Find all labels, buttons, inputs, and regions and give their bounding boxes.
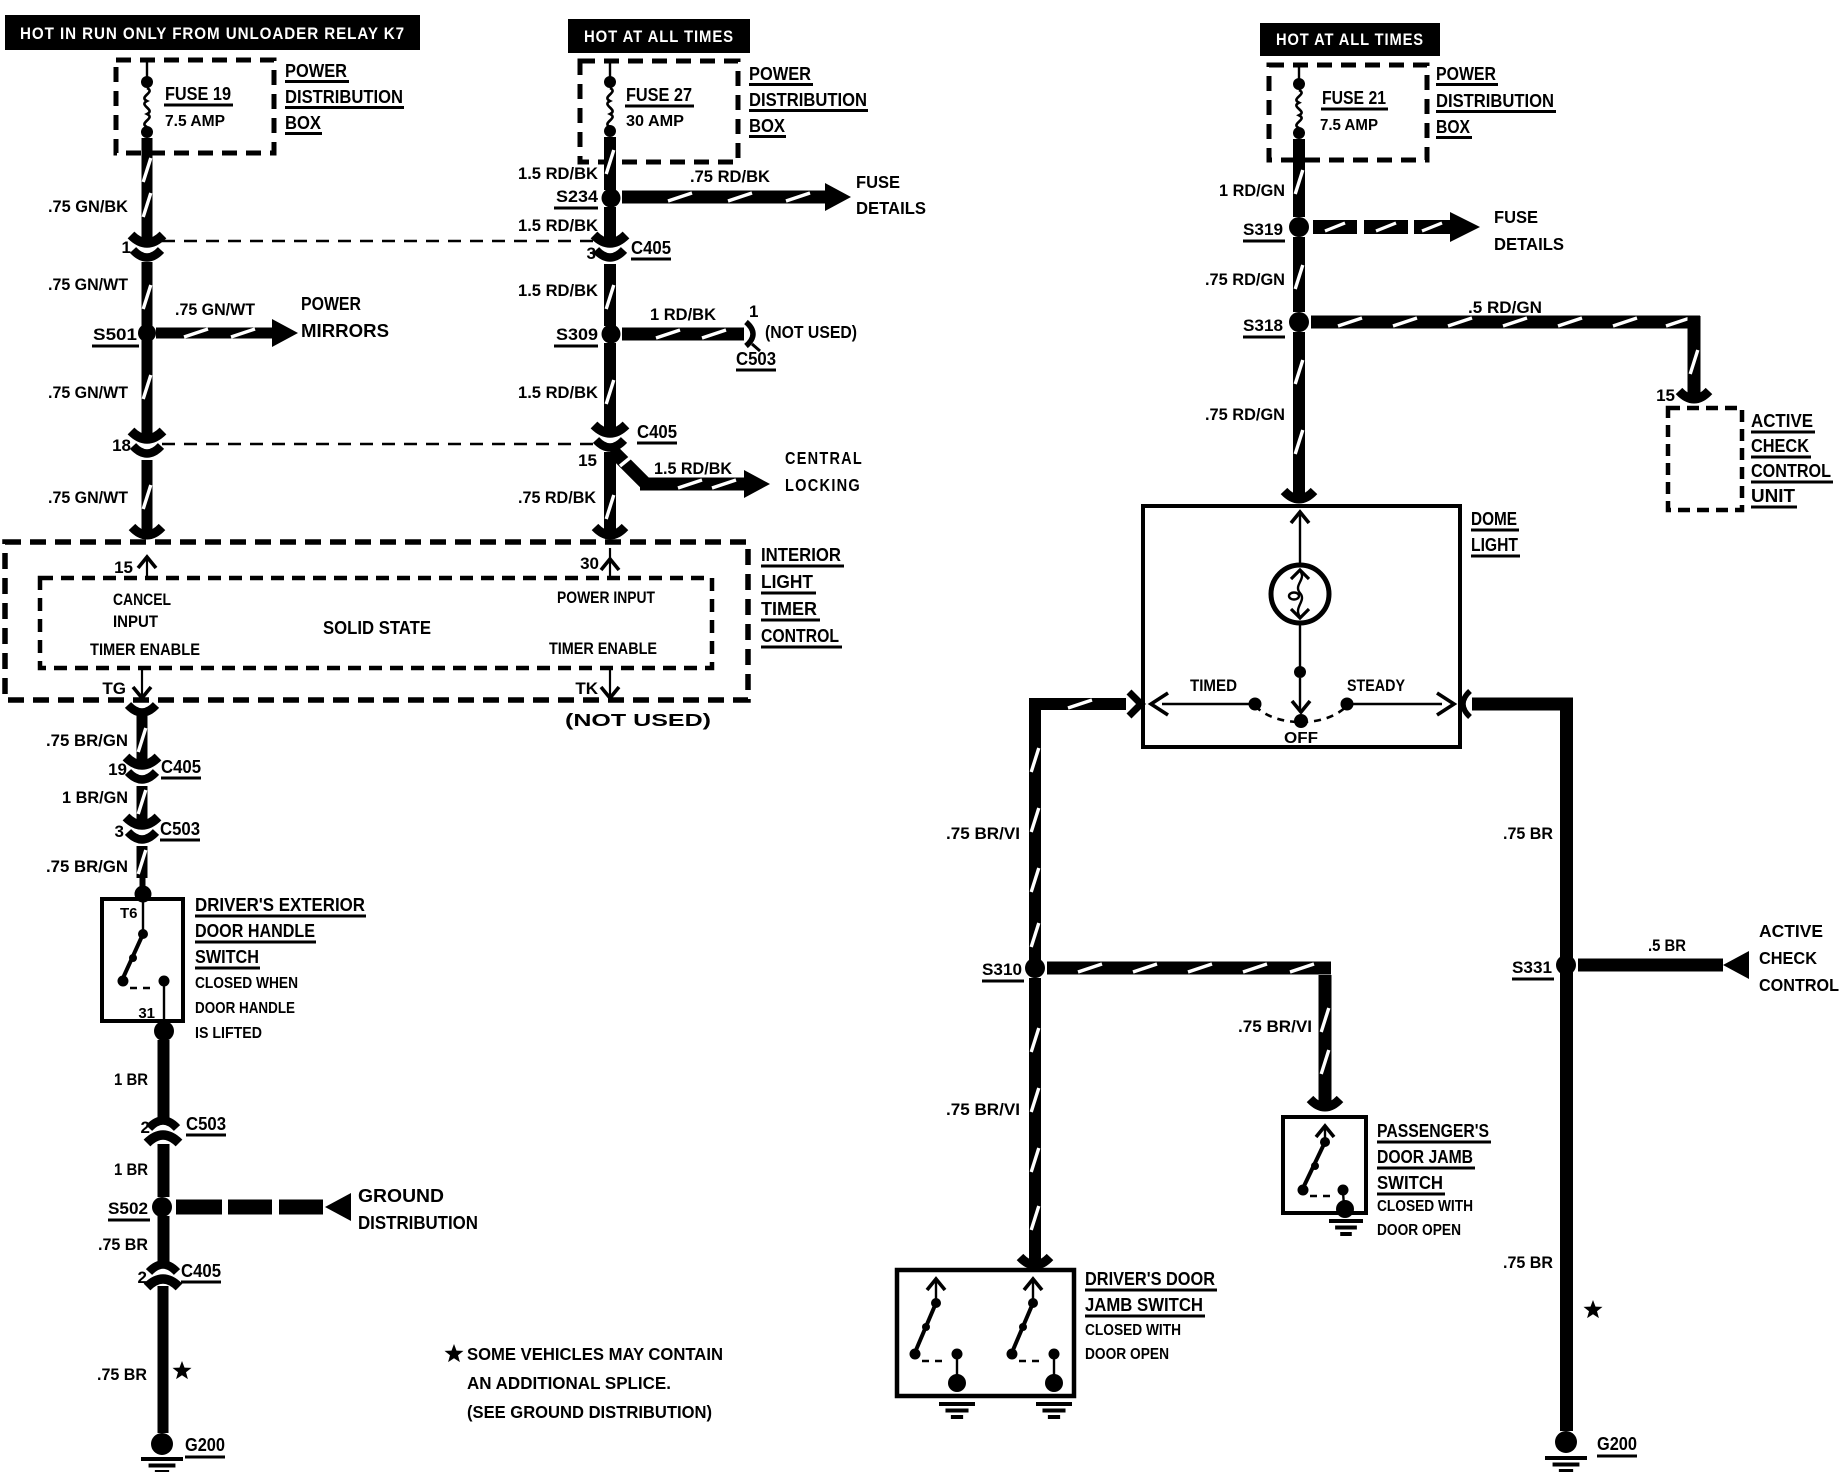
svg-text:FUSE 19: FUSE 19 (165, 84, 231, 104)
svg-text:2: 2 (141, 1118, 150, 1137)
svg-text:30 AMP: 30 AMP (626, 113, 684, 130)
svg-text:FUSE 27: FUSE 27 (626, 85, 692, 105)
svg-text:SWITCH: SWITCH (1377, 1173, 1443, 1193)
svg-text:7.5 AMP: 7.5 AMP (165, 113, 225, 130)
svg-text:(NOT USED): (NOT USED) (765, 322, 857, 342)
svg-text:(NOT USED): (NOT USED) (565, 710, 711, 730)
svg-text:TIMER ENABLE: TIMER ENABLE (549, 640, 657, 658)
svg-text:DETAILS: DETAILS (1494, 234, 1564, 254)
svg-text:.75 GN/BK: .75 GN/BK (48, 197, 129, 216)
svg-text:FUSE 21: FUSE 21 (1322, 88, 1386, 108)
svg-text:.75 GN/WT: .75 GN/WT (48, 383, 129, 402)
svg-text:POWER: POWER (301, 294, 361, 314)
svg-text:1 RD/GN: 1 RD/GN (1219, 181, 1285, 200)
svg-text:1: 1 (749, 302, 758, 321)
svg-text:1 BR: 1 BR (114, 1160, 148, 1179)
svg-text:DOOR HANDLE: DOOR HANDLE (195, 1000, 295, 1017)
svg-text:C405: C405 (161, 757, 201, 777)
svg-text:15: 15 (578, 451, 597, 470)
svg-text:1 BR/GN: 1 BR/GN (62, 788, 128, 807)
svg-text:.75 GN/WT: .75 GN/WT (48, 275, 129, 294)
svg-text:G200: G200 (185, 1435, 225, 1455)
svg-text:ACTIVE: ACTIVE (1759, 921, 1823, 941)
svg-text:CENTRAL: CENTRAL (785, 448, 863, 468)
svg-text:.75 GN/WT: .75 GN/WT (175, 300, 256, 319)
svg-text:CLOSED WHEN: CLOSED WHEN (195, 975, 298, 992)
svg-text:1.5 RD/BK: 1.5 RD/BK (518, 383, 599, 402)
svg-text:POWER: POWER (1436, 64, 1496, 84)
svg-text:OFF: OFF (1284, 730, 1318, 747)
svg-text:.75 BR/GN: .75 BR/GN (46, 857, 128, 876)
svg-text:CONTROL: CONTROL (1759, 975, 1839, 995)
svg-text:C405: C405 (181, 1261, 221, 1281)
svg-text:CHECK: CHECK (1759, 948, 1817, 968)
svg-text:15: 15 (1656, 386, 1675, 405)
svg-text:JAMB SWITCH: JAMB SWITCH (1085, 1295, 1203, 1315)
svg-text:BOX: BOX (749, 116, 785, 136)
svg-text:UNIT: UNIT (1751, 486, 1795, 506)
svg-text:7.5 AMP: 7.5 AMP (1320, 117, 1378, 134)
svg-text:.75 RD/GN: .75 RD/GN (1205, 270, 1285, 289)
svg-text:LIGHT: LIGHT (1471, 535, 1518, 555)
svg-text:FUSE: FUSE (1494, 207, 1538, 227)
svg-text:.75 BR/GN: .75 BR/GN (46, 731, 128, 750)
svg-text:1.5 RD/BK: 1.5 RD/BK (518, 216, 599, 235)
svg-text:SOME VEHICLES MAY CONTAIN: SOME VEHICLES MAY CONTAIN (467, 1344, 723, 1364)
svg-text:DRIVER'S EXTERIOR: DRIVER'S EXTERIOR (195, 895, 365, 915)
svg-text:.75 RD/BK: .75 RD/BK (518, 488, 597, 507)
svg-text:BOX: BOX (285, 113, 321, 133)
svg-text:1 BR: 1 BR (114, 1070, 148, 1089)
svg-text:TK: TK (575, 679, 598, 698)
svg-text:HOT AT ALL TIMES: HOT AT ALL TIMES (584, 28, 734, 46)
svg-text:C405: C405 (637, 422, 677, 442)
svg-text:DISTRIBUTION: DISTRIBUTION (285, 87, 403, 107)
svg-text:.75 RD/GN: .75 RD/GN (1205, 405, 1285, 424)
svg-text:STEADY: STEADY (1347, 677, 1405, 695)
svg-text:BOX: BOX (1436, 117, 1470, 137)
svg-text:CHECK: CHECK (1751, 436, 1809, 456)
svg-text:1: 1 (122, 238, 131, 257)
svg-text:S502: S502 (108, 1199, 148, 1218)
svg-text:TIMED: TIMED (1190, 677, 1237, 695)
svg-text:.5 BR: .5 BR (1648, 936, 1686, 955)
svg-text:.75 GN/WT: .75 GN/WT (48, 488, 129, 507)
svg-text:S331: S331 (1512, 958, 1552, 977)
svg-text:CONTROL: CONTROL (1751, 461, 1831, 481)
svg-text:C503: C503 (160, 819, 200, 839)
svg-text:C503: C503 (186, 1114, 226, 1134)
svg-text:INTERIOR: INTERIOR (761, 545, 841, 565)
svg-text:INPUT: INPUT (113, 613, 158, 631)
svg-text:1 RD/BK: 1 RD/BK (650, 305, 717, 324)
svg-text:DETAILS: DETAILS (856, 198, 926, 218)
svg-text:DISTRIBUTION: DISTRIBUTION (358, 1213, 478, 1233)
svg-text:(SEE GROUND DISTRIBUTION): (SEE GROUND DISTRIBUTION) (467, 1402, 712, 1422)
svg-text:31: 31 (138, 1005, 155, 1022)
svg-text:FUSE: FUSE (856, 172, 900, 192)
svg-text:CANCEL: CANCEL (113, 591, 171, 609)
svg-text:G200: G200 (1597, 1434, 1637, 1454)
svg-text:.75 BR: .75 BR (1503, 1253, 1553, 1272)
svg-text:CLOSED WITH: CLOSED WITH (1085, 1322, 1181, 1339)
svg-text:TIMER: TIMER (761, 599, 817, 619)
svg-text:.5 RD/GN: .5 RD/GN (1468, 298, 1542, 317)
svg-text:C405: C405 (631, 238, 671, 258)
svg-text:AN ADDITIONAL SPLICE.: AN ADDITIONAL SPLICE. (467, 1373, 671, 1393)
svg-text:POWER INPUT: POWER INPUT (557, 589, 655, 607)
svg-text:CONTROL: CONTROL (761, 626, 839, 646)
svg-text:19: 19 (108, 760, 127, 779)
svg-text:DOME: DOME (1471, 509, 1517, 529)
svg-text:TG: TG (102, 679, 126, 698)
svg-text:1.5 RD/BK: 1.5 RD/BK (518, 281, 599, 300)
svg-text:DOOR JAMB: DOOR JAMB (1377, 1147, 1473, 1167)
svg-text:S309: S309 (556, 325, 598, 344)
svg-text:PASSENGER'S: PASSENGER'S (1377, 1121, 1489, 1141)
svg-text:3: 3 (587, 244, 596, 263)
svg-text:2: 2 (138, 1268, 147, 1287)
svg-text:DOOR HANDLE: DOOR HANDLE (195, 921, 315, 941)
svg-text:GROUND: GROUND (358, 1186, 444, 1206)
svg-text:1.5 RD/BK: 1.5 RD/BK (654, 459, 733, 478)
svg-text:.75 BR: .75 BR (98, 1235, 148, 1254)
svg-text:MIRRORS: MIRRORS (301, 321, 389, 341)
svg-text:POWER: POWER (285, 61, 347, 81)
svg-text:DISTRIBUTION: DISTRIBUTION (749, 90, 867, 110)
svg-text:S501: S501 (93, 325, 137, 344)
svg-text:.75 BR/VI: .75 BR/VI (1238, 1017, 1312, 1036)
svg-text:1.5 RD/BK: 1.5 RD/BK (518, 164, 599, 183)
svg-text:T6: T6 (120, 905, 138, 922)
svg-text:18: 18 (112, 436, 131, 455)
svg-text:C503: C503 (736, 349, 776, 369)
svg-text:.75 BR: .75 BR (97, 1365, 147, 1384)
svg-text:DISTRIBUTION: DISTRIBUTION (1436, 91, 1554, 111)
svg-text:ACTIVE: ACTIVE (1751, 411, 1813, 431)
svg-text:15: 15 (114, 558, 133, 577)
svg-text:DOOR OPEN: DOOR OPEN (1377, 1222, 1461, 1239)
svg-text:S318: S318 (1243, 316, 1283, 335)
svg-text:POWER: POWER (749, 64, 811, 84)
svg-text:.75 RD/BK: .75 RD/BK (690, 167, 771, 186)
svg-text:DRIVER'S DOOR: DRIVER'S DOOR (1085, 1269, 1215, 1289)
svg-text:SOLID STATE: SOLID STATE (323, 618, 431, 638)
svg-text:S234: S234 (556, 187, 599, 206)
svg-text:S319: S319 (1243, 220, 1283, 239)
svg-text:.75 BR/VI: .75 BR/VI (946, 824, 1020, 843)
svg-text:TIMER ENABLE: TIMER ENABLE (90, 641, 200, 659)
svg-text:LIGHT: LIGHT (761, 572, 813, 592)
svg-text:IS LIFTED: IS LIFTED (195, 1025, 262, 1042)
svg-text:SWITCH: SWITCH (195, 947, 259, 967)
svg-text:30: 30 (580, 554, 599, 573)
svg-text:3: 3 (115, 822, 124, 841)
svg-text:.75 BR/VI: .75 BR/VI (946, 1100, 1020, 1119)
svg-text:DOOR OPEN: DOOR OPEN (1085, 1346, 1169, 1363)
svg-text:HOT AT ALL TIMES: HOT AT ALL TIMES (1276, 31, 1424, 49)
svg-text:.75 BR: .75 BR (1503, 824, 1553, 843)
svg-text:LOCKING: LOCKING (785, 475, 861, 495)
svg-text:S310: S310 (982, 960, 1022, 979)
svg-text:HOT IN RUN ONLY FROM UNLOADER: HOT IN RUN ONLY FROM UNLOADER RELAY K7 (20, 25, 405, 43)
svg-text:CLOSED WITH: CLOSED WITH (1377, 1198, 1473, 1215)
